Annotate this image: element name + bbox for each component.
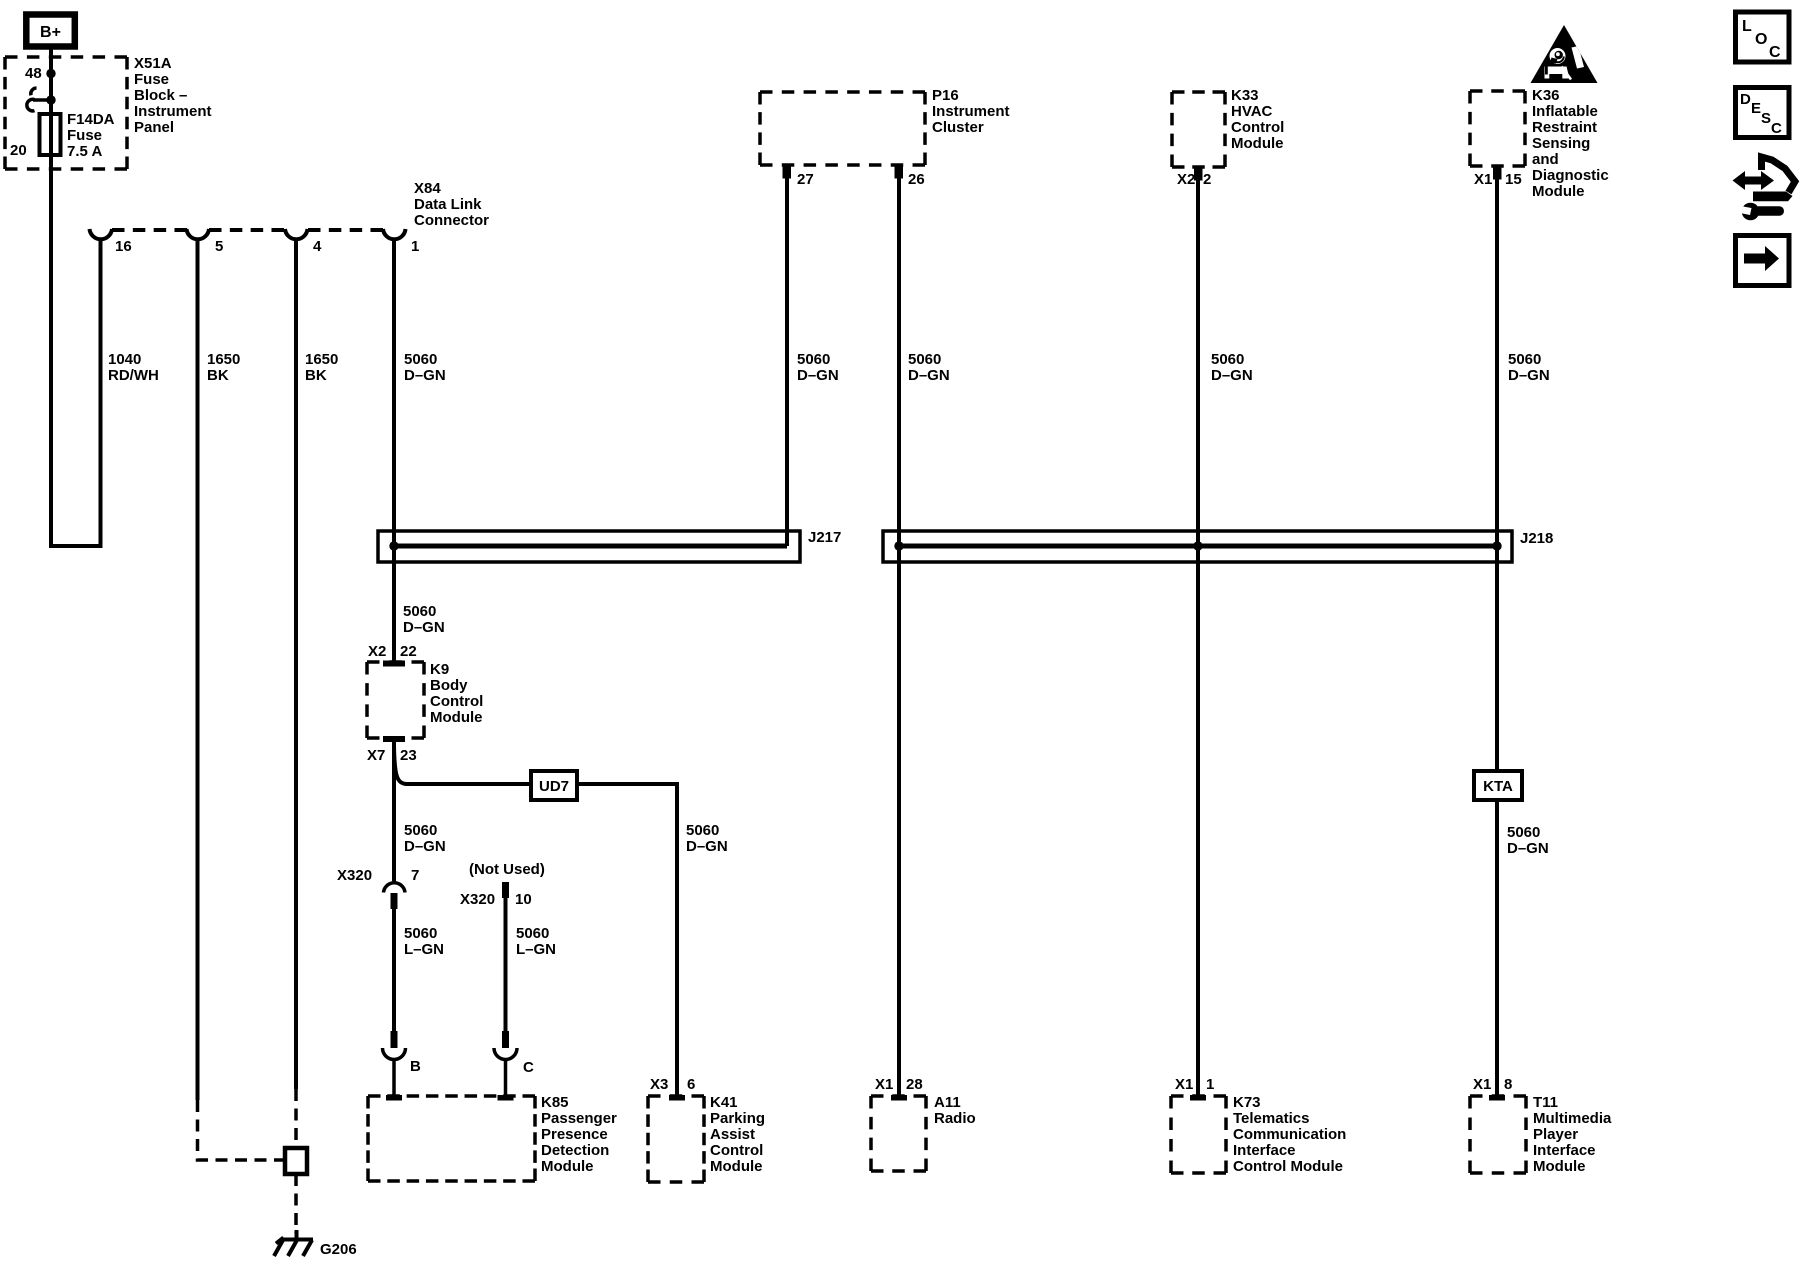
svg-text:(Not Used): (Not Used) xyxy=(469,861,545,878)
icon data link arrows and wrench xyxy=(1733,157,1796,220)
wire dashed segment pin 5 to splice square xyxy=(198,1100,284,1160)
icon LOC box xyxy=(1736,12,1790,62)
module T11 Multimedia Player Interface Module dashed box xyxy=(1470,1096,1526,1173)
connector KTA box xyxy=(1474,771,1522,800)
svg-text:X7: X7 xyxy=(367,747,385,764)
connector UD7 box xyxy=(531,771,577,800)
module K36 Inflatable Restraint Sensing and Diagnostic Module dashed box xyxy=(1470,91,1525,166)
wire 5060 D-GN horizontal through UD7 to K41 drop xyxy=(405,784,677,1096)
svg-text:48: 48 xyxy=(25,65,42,82)
wire 5060 D-GN from X84 pin 1 to K9 xyxy=(392,240,396,661)
svg-text:C: C xyxy=(523,1059,534,1076)
fuse F14DA symbol xyxy=(40,114,61,155)
module K9 Body Control Module dashed box xyxy=(367,662,424,738)
icon DESC box xyxy=(1736,88,1790,138)
svg-text:D: D xyxy=(1740,91,1751,108)
svg-text:X3: X3 xyxy=(650,1076,668,1093)
wire 5060 D-GN from K9 X7 23 down to X320 pin 7 xyxy=(392,738,396,883)
svg-text:26: 26 xyxy=(908,171,925,188)
svg-text:E: E xyxy=(1751,100,1761,117)
wire 1650 BK from X84 pin 5 xyxy=(196,240,200,1100)
svg-text:L: L xyxy=(1742,18,1752,35)
svg-text:G206: G206 xyxy=(320,1241,357,1258)
splice square node xyxy=(285,1148,307,1174)
svg-text:X1: X1 xyxy=(1175,1076,1193,1093)
fuse block internal connector hooks xyxy=(27,88,51,111)
svg-text:1: 1 xyxy=(1206,1076,1214,1093)
ground G206 xyxy=(274,1230,313,1256)
wire 5060 D-GN from K36 to T11 xyxy=(1495,179,1499,1096)
pin 28 terminal T-bar xyxy=(891,1095,907,1101)
connector X84 cup pin 16 xyxy=(90,229,113,239)
svg-text:8: 8 xyxy=(1504,1076,1512,1093)
svg-text:1: 1 xyxy=(411,238,419,255)
svg-text:6: 6 xyxy=(687,1076,695,1093)
svg-text:X1: X1 xyxy=(1474,171,1492,188)
splice J217 xyxy=(378,531,800,562)
svg-text:4: 4 xyxy=(313,238,322,255)
warning triangle airbag icon xyxy=(1531,25,1598,83)
svg-text:KTA: KTA xyxy=(1483,778,1513,795)
svg-text:22: 22 xyxy=(400,643,417,660)
connector X320 pin 7 xyxy=(384,883,406,909)
pin 27 terminal tab xyxy=(783,164,792,179)
wire 5060 D-GN from P16 pin 27 to splice J217 xyxy=(785,178,789,546)
wire dashed segment to ground xyxy=(294,1174,298,1233)
node internal junction dot xyxy=(46,95,55,104)
pin 1 terminal T-bar xyxy=(1190,1095,1206,1101)
svg-text:UD7: UD7 xyxy=(539,778,569,795)
node pin 48 junction dot xyxy=(46,69,55,78)
wire dashed segment pin 4 to splice square xyxy=(294,1089,298,1148)
svg-text:2: 2 xyxy=(1203,171,1211,188)
svg-text:X2: X2 xyxy=(368,643,386,660)
svg-text:B+: B+ xyxy=(40,24,61,41)
connector X84 cup pin 4 xyxy=(285,229,308,239)
svg-text:X1: X1 xyxy=(1473,1076,1491,1093)
wire branch curve from K9 pin 23 to UD7 xyxy=(394,746,407,784)
connector pin B at K85 xyxy=(383,1031,406,1101)
fuse block X51A dashed box xyxy=(5,57,127,169)
power symbol B+ xyxy=(26,15,75,47)
wire from B+ through fuse F14DA down to splice corner and up to X84 pin 16 xyxy=(51,47,101,546)
splice J218 xyxy=(883,531,1512,562)
module K33 HVAC Control Module dashed box xyxy=(1172,92,1225,167)
svg-text:23: 23 xyxy=(400,747,417,764)
icon forward arrow box xyxy=(1736,236,1790,286)
wire 5060 D-GN from P16 pin 26 to A11 xyxy=(897,178,901,1096)
wire 1650 BK from X84 pin 4 xyxy=(294,240,298,1089)
svg-text:B: B xyxy=(410,1058,421,1075)
svg-text:J217: J217 xyxy=(808,529,841,546)
connector pin C at K85 xyxy=(494,1031,517,1101)
wire 5060 D-GN from K33 to K73 xyxy=(1196,180,1200,1096)
pin 22 terminal T-bar xyxy=(383,661,405,667)
svg-text:X320: X320 xyxy=(460,891,495,908)
wire 5060 L-GN from X320 7 to K85 B xyxy=(392,909,396,1032)
svg-text:J218: J218 xyxy=(1520,530,1553,547)
pin X1 15 terminal tab xyxy=(1493,165,1502,180)
module A11 Radio dashed box xyxy=(871,1096,926,1171)
module K85 Passenger Presence Detection Module dashed box xyxy=(368,1096,535,1181)
svg-text:X320: X320 xyxy=(337,867,372,884)
svg-text:10: 10 xyxy=(515,891,532,908)
svg-text:X2: X2 xyxy=(1177,171,1195,188)
svg-text:5: 5 xyxy=(215,238,223,255)
connector X84 cup pin 1 xyxy=(383,229,406,239)
svg-text:7: 7 xyxy=(411,867,419,884)
pin 26 terminal tab xyxy=(895,164,904,179)
module K41 Parking Assist Control Module dashed box xyxy=(648,1096,704,1182)
pin X2 2 terminal tab xyxy=(1194,166,1203,181)
svg-text:C: C xyxy=(1771,120,1782,137)
svg-text:27: 27 xyxy=(797,171,814,188)
pin 23 terminal T-bar xyxy=(383,736,405,742)
pin 8 terminal T-bar xyxy=(1489,1095,1505,1101)
pin 6 terminal T-bar xyxy=(669,1095,685,1101)
wire 5060 L-GN from X320 10 to K85 C xyxy=(504,898,508,1032)
connector X84 cup pin 5 xyxy=(187,229,210,239)
svg-text:20: 20 xyxy=(10,142,27,159)
svg-text:C: C xyxy=(1769,44,1781,61)
svg-text:15: 15 xyxy=(1505,171,1522,188)
svg-text:X1: X1 xyxy=(875,1076,893,1093)
module K73 Telematics Communication Interface Control Module dashed box xyxy=(1171,1096,1226,1173)
svg-text:16: 16 xyxy=(115,238,132,255)
connector X84 dashed line xyxy=(112,228,384,232)
connector X320 pin 10 stub xyxy=(502,882,509,898)
svg-text:28: 28 xyxy=(906,1076,923,1093)
svg-text:S: S xyxy=(1761,110,1771,127)
svg-text:O: O xyxy=(1755,31,1767,48)
module P16 Instrument Cluster dashed box xyxy=(760,92,925,165)
